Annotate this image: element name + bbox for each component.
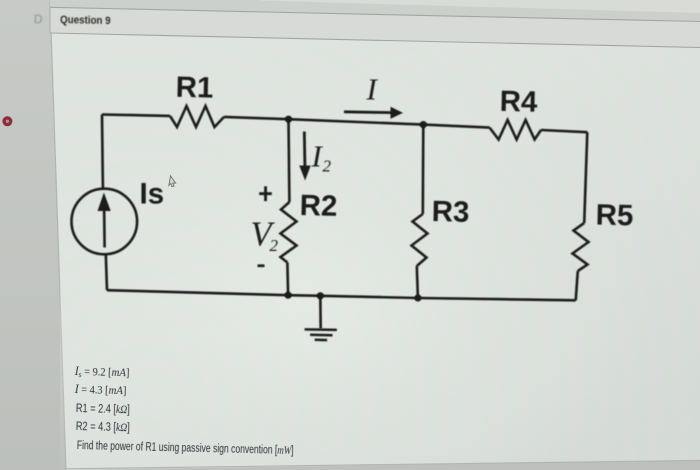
resistor R5 — [573, 223, 589, 271]
wire: left branch down to source Is — [101, 115, 105, 189]
current arrow I2 (R2 branch) — [299, 132, 310, 181]
node B junction dot — [420, 121, 427, 128]
wire: R3 to node E — [417, 266, 418, 298]
svg-text:2: 2 — [323, 157, 332, 176]
resistor R1 — [170, 106, 224, 127]
wire: node C to ground node D — [288, 294, 320, 297]
given values text block — [74, 365, 129, 381]
ground symbol — [305, 329, 337, 340]
wire: node A to node B — [289, 119, 424, 124]
wire: source bottom to bottom-left corner — [106, 254, 107, 290]
brighter wedge top-right — [260, 0, 700, 13]
svg-text:Question 9: Question 9 — [60, 15, 111, 28]
current arrow I (top) — [344, 107, 403, 119]
wire: node A down to R2 — [287, 119, 290, 202]
resistor R3 — [412, 214, 428, 266]
given value: R1 = 2.4 kOhm — [75, 403, 115, 416]
current source Is — [72, 189, 138, 255]
faint bottom card edge — [64, 461, 700, 470]
wire: R1 to node A — [224, 117, 289, 119]
question prompt — [77, 440, 278, 457]
svg-text:D: D — [34, 12, 43, 27]
svg-text:R5: R5 — [595, 199, 633, 233]
svg-text:2: 2 — [270, 236, 279, 255]
resistor R4 — [490, 120, 541, 140]
red notification badge left edge — [2, 116, 12, 126]
ground stub wire — [319, 296, 322, 329]
svg-text:R2: R2 — [299, 189, 337, 223]
header bar: Question 9 — [50, 7, 700, 47]
wire: node D to node E — [320, 296, 418, 298]
wire: top-right corner down to R5 — [584, 132, 587, 223]
polarity minus of V2 — [258, 264, 265, 267]
wire: node B down to R3 — [421, 125, 424, 214]
given value: Is = 9.2 mA — [74, 364, 78, 378]
given value: R2 = 4.3 kOhm — [76, 421, 116, 434]
node E junction dot — [414, 294, 421, 301]
band above header — [50, 0, 700, 22]
wire: node B to R4 — [423, 125, 489, 128]
node D junction dot (ground) — [317, 292, 324, 299]
svg-text:R4: R4 — [499, 85, 538, 119]
given value: I = 4.3 mA — [75, 382, 79, 396]
resistor R2 — [281, 202, 297, 263]
wire: node E to bottom-right corner — [418, 298, 576, 300]
wire: R2 to node C — [286, 263, 289, 296]
node C junction dot — [285, 292, 292, 299]
arrow of source Is — [98, 193, 111, 248]
wire: top-left corner to R1 — [102, 115, 170, 116]
wire: bottom-left corner to node C — [107, 290, 288, 295]
svg-text:R1: R1 — [175, 71, 213, 105]
polarity plus of V2 — [259, 192, 272, 195]
node A junction dot — [285, 116, 292, 123]
wire: R4 to top-right corner — [541, 130, 587, 132]
svg-text:R3: R3 — [431, 195, 469, 229]
svg-text:I: I — [366, 72, 379, 107]
mouse cursor — [169, 176, 176, 187]
svg-text:Is: Is — [140, 177, 165, 210]
wire: R5 to bottom-right corner — [576, 271, 578, 300]
